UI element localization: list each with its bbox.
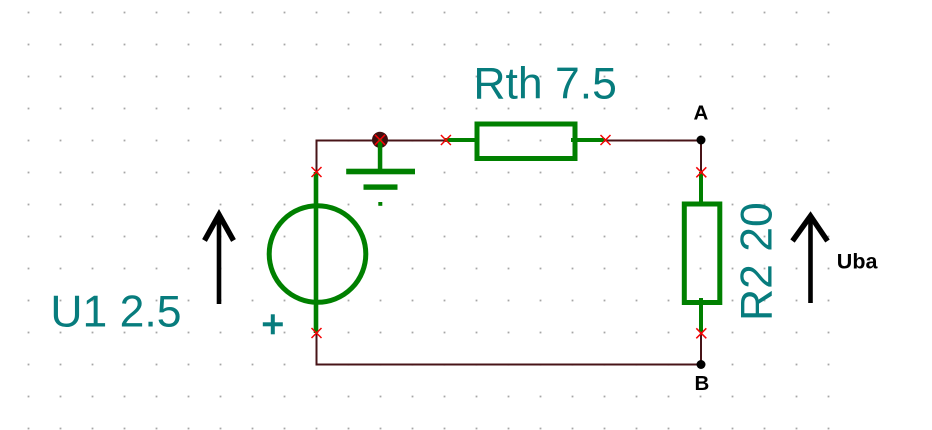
junction	[372, 132, 388, 148]
wire	[700, 332, 702, 365]
wire	[380, 140, 445, 142]
voltage arrow of U1	[205, 215, 234, 305]
pin marker	[375, 135, 385, 145]
voltage arrow Uba	[793, 216, 828, 303]
svg-text:U1 2.5: U1 2.5	[50, 288, 181, 337]
svg-text:R2 20: R2 20	[733, 202, 782, 321]
node A	[697, 136, 706, 145]
wire	[317, 333, 702, 365]
wire	[700, 141, 702, 173]
svg-text:Rth 7.5: Rth 7.5	[473, 60, 616, 109]
resistor R2	[684, 172, 720, 332]
svg-text:A: A	[694, 102, 709, 125]
pin marker	[312, 167, 322, 177]
wire	[605, 140, 701, 142]
pin marker	[601, 135, 611, 145]
pin marker	[696, 328, 706, 338]
ground	[346, 139, 415, 206]
svg-text:B: B	[695, 372, 710, 395]
node B	[697, 360, 706, 369]
polarity plus of U1	[263, 314, 283, 334]
wire	[317, 141, 381, 173]
resistor Rth	[445, 124, 605, 159]
pin marker	[312, 328, 322, 338]
svg-text:Uba: Uba	[837, 250, 879, 274]
voltage source U1	[269, 172, 366, 333]
pin marker	[696, 167, 706, 177]
pin marker	[441, 135, 451, 145]
